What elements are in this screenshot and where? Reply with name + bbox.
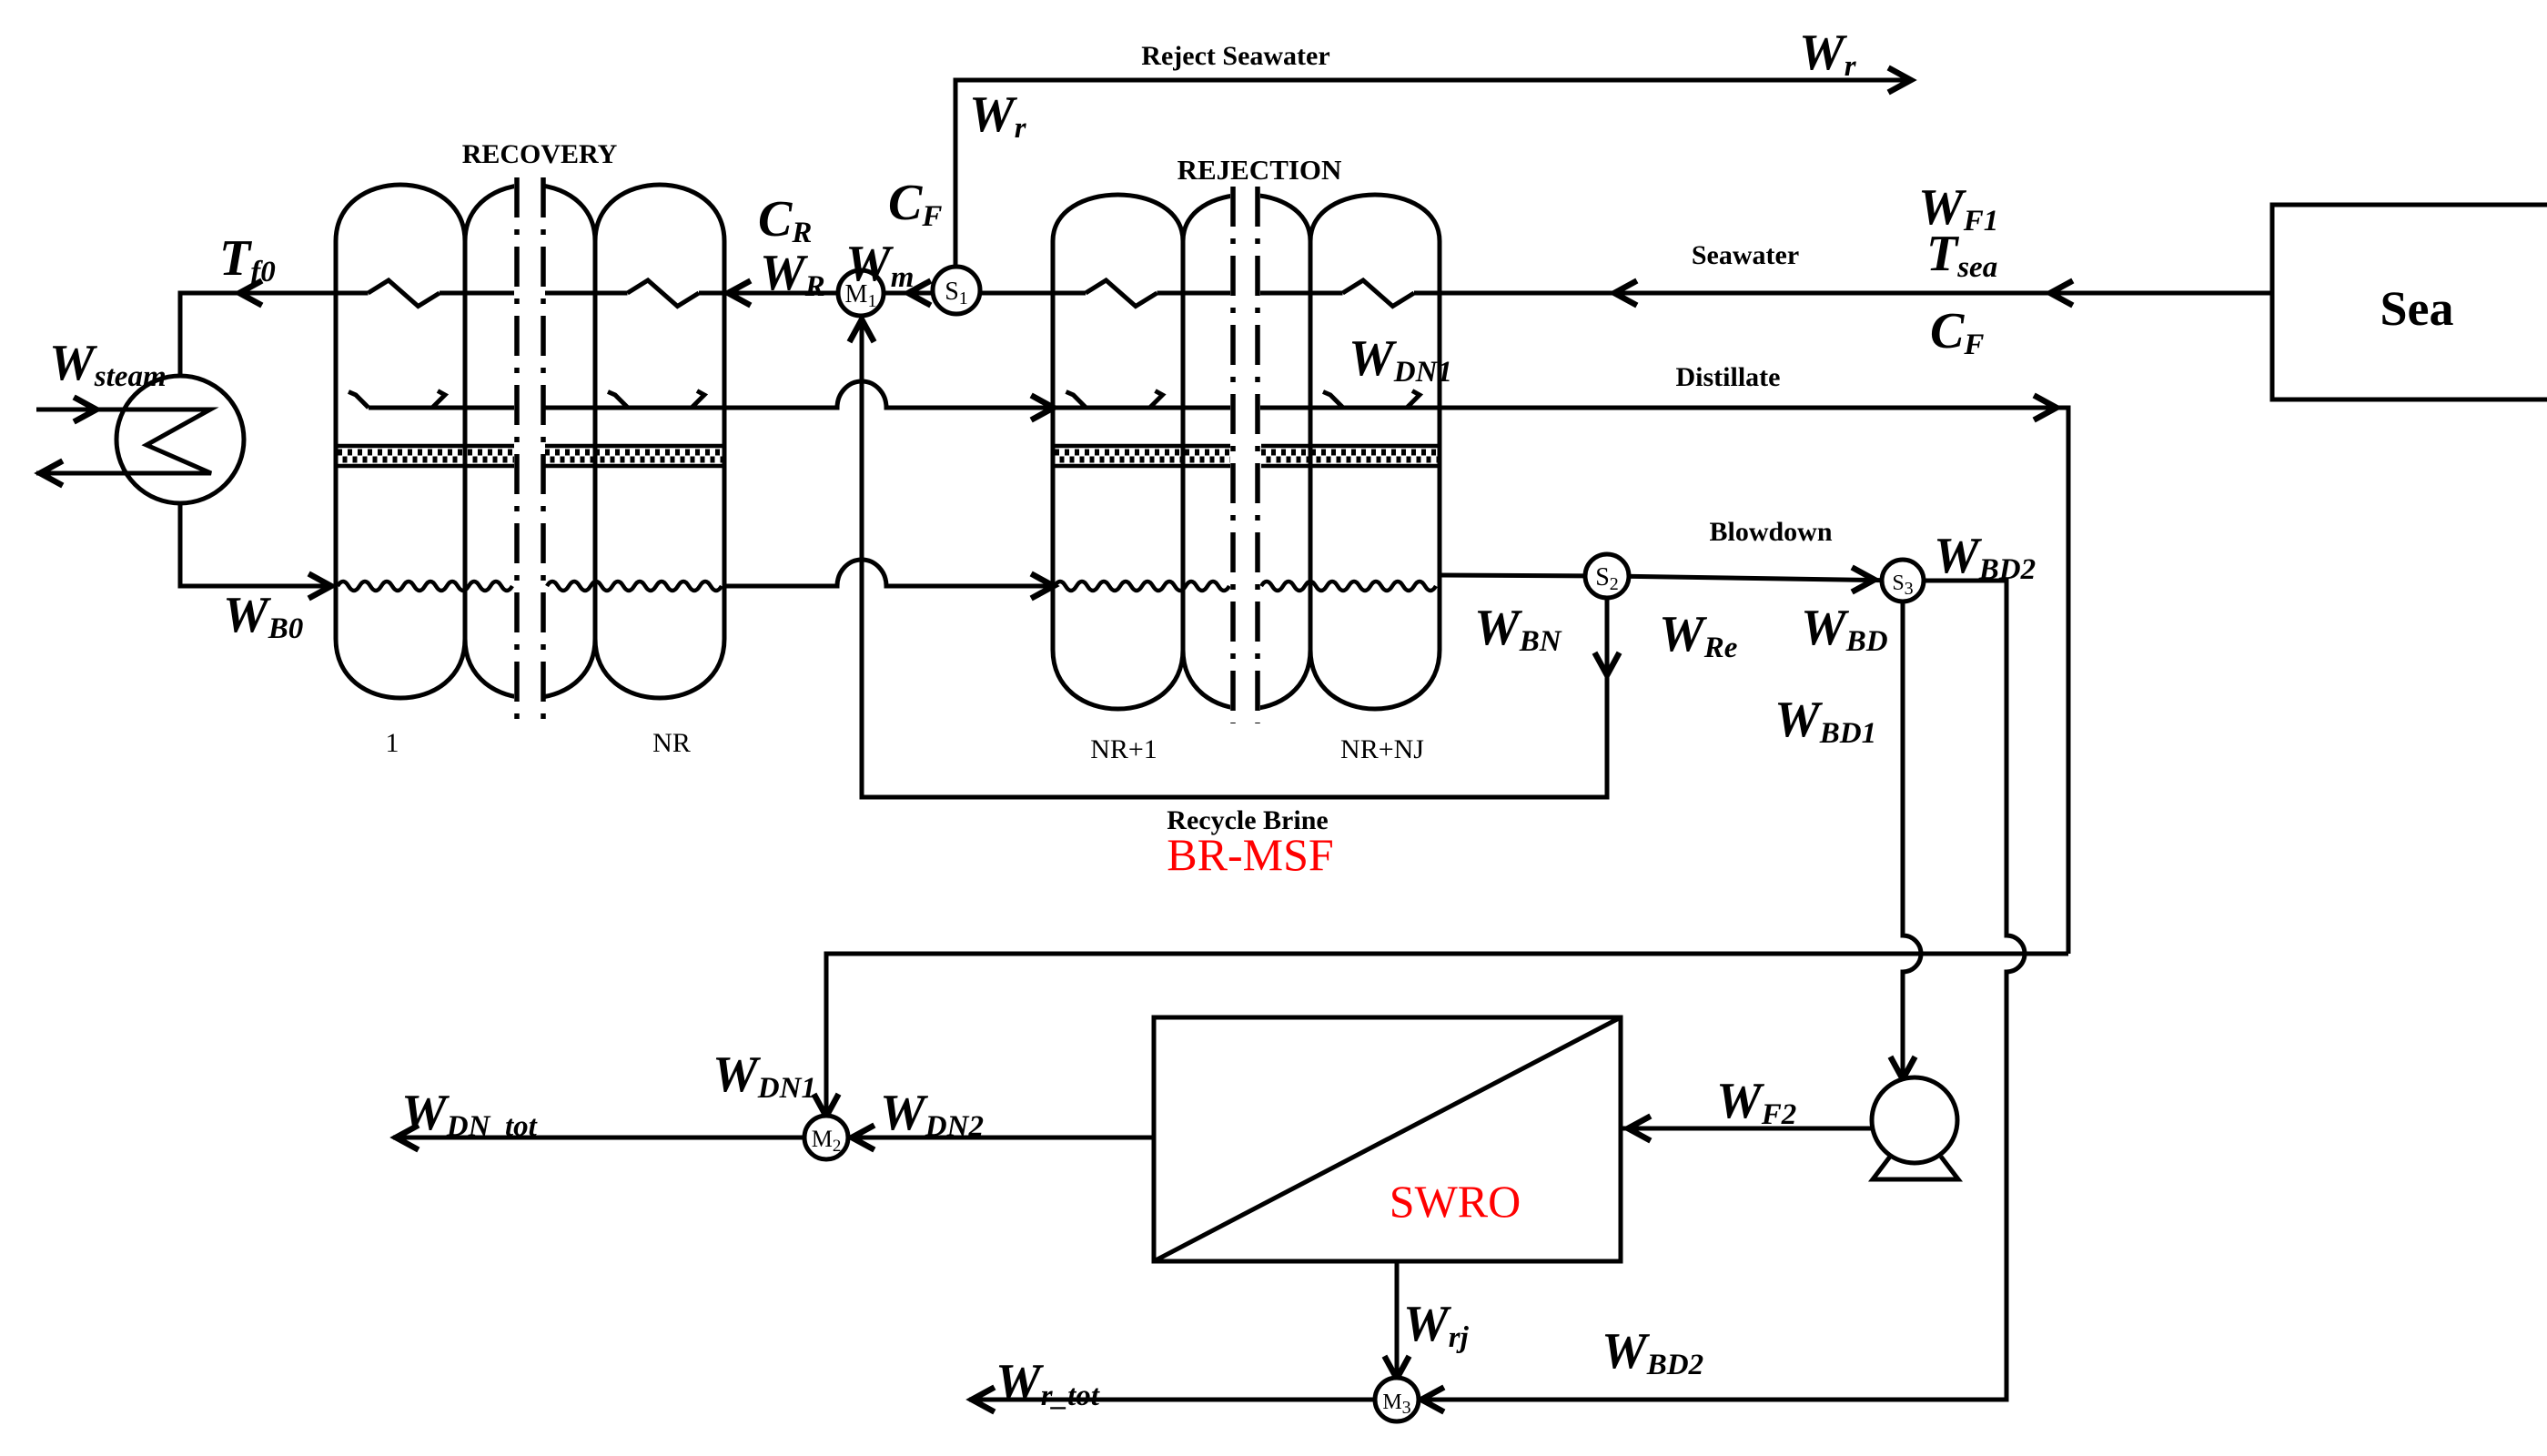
svg-text:REJECTION: REJECTION: [1177, 154, 1342, 186]
steam outlet line: [36, 471, 126, 476]
mixer M3: [1375, 1378, 1419, 1421]
recovery vessels domes: [336, 185, 724, 698]
rejection vessels domes: [1053, 195, 1440, 709]
steam inlet line Wsteam: [36, 408, 124, 412]
WBD2 line S3 to M3 with hop over WDN1: [1420, 581, 2025, 1400]
Sea source box: [2272, 205, 2547, 399]
brine connector with hop over recycle line: [724, 560, 1053, 586]
recovery condenser zigzag stage NR: [628, 280, 700, 307]
splitter S3: [1882, 560, 1924, 602]
svg-text:Blowdown: Blowdown: [1709, 517, 1832, 547]
svg-text:NR: NR: [652, 728, 691, 758]
recovery break dash-dot line left: [514, 177, 520, 723]
recovery break dash-dot line right: [541, 177, 546, 723]
seawater feed line from Sea: [1440, 291, 2272, 296]
svg-text:Distillate: Distillate: [1676, 362, 1781, 392]
rejection seawater tube line y=322: [1053, 291, 1440, 296]
rejection tray dish NR+NJ: [1323, 391, 1420, 409]
svg-text:Sea: Sea: [2380, 281, 2454, 336]
mixer M1: [838, 270, 884, 316]
svg-text:Seawater: Seawater: [1692, 240, 1799, 270]
WF2 line pump to SWRO: [1622, 1127, 1874, 1131]
rejection condenser zigzag stage NR+1: [1086, 280, 1157, 307]
brine blowdown line WBN to S2: [1440, 575, 1607, 576]
rejection brine pool wavy line: [1055, 581, 1229, 591]
recovery seawater tube line y=322: [336, 291, 724, 296]
rejection perforated deck: [1055, 446, 1231, 466]
WB0 line from heater to stage 1: [180, 502, 336, 586]
svg-text:1: 1: [386, 728, 399, 758]
Tf0 line from stage 1 to heater: [180, 293, 336, 377]
WBD1 line S3 to pump with hop over WDN1: [1903, 601, 1921, 1079]
brine heater circle: [116, 376, 244, 503]
rejection section break (white gap): [1230, 185, 1260, 725]
recovery tray dish stage 1: [349, 391, 445, 409]
feed pump base: [1873, 1157, 1958, 1179]
WDN_tot product line: [393, 1136, 804, 1140]
svg-text:RECOVERY: RECOVERY: [462, 139, 618, 169]
SWRO membrane unit box: [1154, 1017, 1621, 1261]
recovery brine pool wavy line: [338, 581, 512, 591]
rejection vessels walls: [1053, 241, 1440, 650]
WDN2 line SWRO to M2: [849, 1136, 1154, 1140]
distillate connector with hop over recycle line: [724, 381, 1053, 408]
recovery distillate tray line y=448: [369, 406, 724, 410]
recovery vessels walls: [336, 241, 724, 639]
recovery condenser zigzag stage 1: [369, 280, 440, 307]
blowdown S2 to S3: [1607, 576, 1903, 581]
rejection distillate tray line: [1053, 406, 1440, 410]
splitter S1: [933, 267, 980, 314]
svg-text:NR+1: NR+1: [1090, 734, 1157, 764]
svg-text:Reject Seawater: Reject Seawater: [1141, 41, 1329, 71]
rejection condenser zigzag stage NR+NJ: [1343, 280, 1415, 307]
recycle brine line: [862, 317, 1607, 797]
SWRO diagonal membrane line: [1154, 1017, 1621, 1261]
rejection tray dish NR+1: [1066, 391, 1163, 409]
seawater recycle line through M1 S1 (y=322): [724, 291, 1053, 296]
svg-text:SWRO: SWRO: [1390, 1176, 1521, 1227]
recovery section break (white gap): [514, 176, 545, 725]
mixer M2: [804, 1116, 848, 1159]
distillate line to SWRO loop: [1440, 408, 2068, 954]
WDN1 line down to M2: [826, 954, 2068, 1117]
recovery perforated deck: [338, 446, 515, 466]
svg-text:BR-MSF: BR-MSF: [1167, 829, 1333, 880]
feed pump circle: [1872, 1077, 1957, 1163]
Wr_tot reject line from M3: [969, 1398, 1374, 1402]
rejection break dash-dot line right: [1255, 187, 1260, 723]
svg-text:NR+NJ: NR+NJ: [1340, 734, 1424, 764]
brine heater internal tube zigzag: [124, 409, 211, 473]
recovery tray dish stage NR: [608, 391, 704, 409]
Wrj line SWRO to M3: [1395, 1261, 1400, 1380]
splitter S2: [1585, 554, 1629, 598]
rejection break dash-dot line left: [1230, 187, 1236, 723]
reject seawater line Wr: [955, 80, 1911, 268]
